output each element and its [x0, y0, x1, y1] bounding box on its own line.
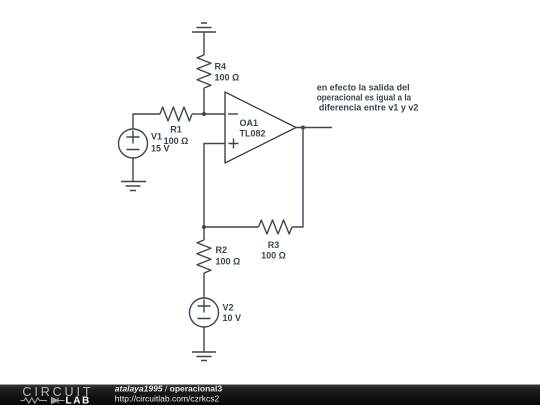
resistor R4 — [197, 55, 211, 88]
resistor R1 — [160, 107, 192, 121]
resistor R3 — [259, 220, 293, 234]
svg-text:R4: R4 — [215, 62, 227, 72]
op-amp minus sign — [228, 113, 238, 115]
svg-text:100 Ω: 100 Ω — [216, 257, 241, 267]
wire R1 right lead to node A — [192, 113, 204, 115]
ground GND3 — [192, 352, 216, 361]
wire R4 bottom to node A — [203, 88, 205, 114]
wire op-amp non-inverting input to node B — [204, 144, 225, 228]
svg-text:http://circuitlab.com/czrkcs2: http://circuitlab.com/czrkcs2 — [115, 393, 220, 403]
svg-text:diferencia entre v1 y v2: diferencia entre v1 y v2 — [319, 103, 419, 113]
footer bar — [0, 385, 540, 405]
svg-text:100 Ω: 100 Ω — [261, 251, 286, 261]
voltage source V2 — [190, 298, 219, 327]
node A junction dot — [202, 112, 206, 116]
svg-text:R2: R2 — [216, 245, 228, 255]
wire R3 right lead up to output node C — [292, 128, 303, 228]
svg-text:TL082: TL082 — [240, 129, 266, 139]
op-amp plus sign — [229, 139, 239, 149]
wire V1 bottom to GND2 — [132, 158, 134, 182]
svg-text:15 V: 15 V — [151, 144, 170, 154]
wire R2 bottom to V2 top — [203, 273, 205, 298]
svg-text:V2: V2 — [223, 303, 234, 313]
svg-text:R3: R3 — [268, 240, 280, 250]
wire op-amp output — [296, 127, 332, 129]
svg-text:atalaya1995 / operacional3: atalaya1995 / operacional3 — [115, 383, 223, 393]
svg-text:en efecto la salida del: en efecto la salida del — [317, 83, 410, 93]
voltage source V1 — [119, 129, 148, 158]
ground GND2 — [121, 182, 146, 191]
svg-text:LAB: LAB — [66, 396, 91, 405]
node C junction dot — [301, 126, 305, 130]
svg-text:10 V: 10 V — [223, 313, 242, 323]
wire node A to op-amp inverting input — [204, 113, 225, 115]
svg-text:OA1: OA1 — [240, 118, 259, 128]
wire V1 top to R1 left lead — [133, 114, 160, 129]
svg-text:V1: V1 — [151, 132, 162, 142]
wire GND1 to R4 top — [203, 32, 205, 55]
svg-text:100 Ω: 100 Ω — [215, 73, 240, 83]
op-amp OA1 body — [225, 92, 296, 163]
ground GND1 (top, bars above stem) — [192, 23, 216, 32]
svg-text:operacional es igual a la: operacional es igual a la — [317, 93, 412, 103]
wire V2 bottom to GND3 — [203, 327, 205, 352]
resistor R2 — [197, 240, 211, 273]
svg-text:R1: R1 — [170, 125, 182, 135]
node B junction dot — [202, 225, 206, 229]
wire node B to R2 top — [203, 227, 205, 240]
wire node B to R3 left lead — [204, 226, 259, 228]
footer logo resistor-diode glyph — [21, 398, 65, 404]
